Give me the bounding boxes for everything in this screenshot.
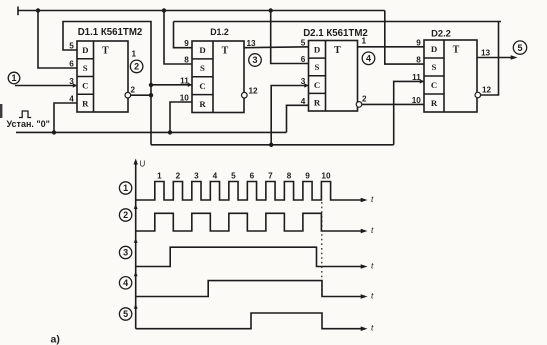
svg-text:D: D — [82, 45, 88, 55]
svg-text:8: 8 — [416, 56, 421, 65]
wire: reset up to R pin 4 of D1.1 — [54, 103, 77, 132]
svg-text:9: 9 — [416, 38, 421, 47]
pin 10 label of D2.2 — [412, 96, 422, 105]
timing row 2 waveform — [136, 213, 364, 231]
wire: B right leg down to pin 12 of D2.2 — [498, 22, 500, 96]
svg-text:C: C — [314, 80, 320, 90]
pin 9 label of D1.2 — [184, 39, 189, 48]
clock arrowhead at C of D2.2 — [420, 79, 424, 83]
svg-text:1: 1 — [11, 73, 16, 83]
pin 13 label of D2.2 — [481, 49, 491, 58]
svg-text:7: 7 — [268, 172, 273, 181]
svg-text:1: 1 — [123, 183, 128, 193]
wire: /Q D1.1 to C pin 11 of D1.2 — [151, 84, 192, 86]
inversion bubble pin 12 D2.2 — [475, 92, 481, 98]
timing row 5 t label — [371, 323, 374, 333]
svg-text:S: S — [83, 63, 88, 73]
svg-text:C: C — [82, 81, 88, 91]
svg-text:3: 3 — [252, 55, 257, 65]
pin 8 label of D2.2 — [416, 56, 421, 65]
dashed timing marker line — [321, 202, 323, 295]
svg-text:6: 6 — [69, 60, 74, 69]
label D1.2 — [210, 27, 229, 37]
svg-text:4: 4 — [69, 95, 74, 104]
wire: input to C pin 3 of D1.1 — [15, 85, 77, 87]
timing row 4 waveform — [136, 281, 364, 297]
pin 1 label of D1.1 — [132, 50, 137, 59]
svg-text:S: S — [200, 63, 205, 73]
svg-text:Устан. "0": Устан. "0" — [7, 119, 50, 129]
wire: pin12 D2.2 to B leg — [480, 94, 499, 96]
svg-text:3: 3 — [194, 172, 199, 181]
pulse symbol at reset input — [19, 111, 31, 118]
label D2.1 K561TM2 — [303, 28, 368, 39]
svg-text:12: 12 — [482, 86, 492, 95]
svg-text:S: S — [432, 62, 437, 72]
svg-text:5: 5 — [301, 38, 306, 47]
wire: drop to S pin 6 of D2.1 — [271, 11, 309, 64]
inversion bubble pin 2 D2.1 — [356, 102, 362, 108]
svg-text:2: 2 — [123, 210, 128, 220]
timing row 4 t label — [371, 291, 374, 301]
pulse number 1 — [157, 172, 162, 181]
flip-flop D2.1 K561TM2 box — [309, 41, 358, 112]
pulse number 8 — [287, 172, 292, 181]
pin 6 label of D1.1 — [69, 60, 74, 69]
svg-text:3: 3 — [69, 77, 74, 86]
svg-text:D2.2: D2.2 — [431, 28, 451, 39]
svg-text:D: D — [199, 45, 205, 55]
wire: bus A corner drop to S pin 8 of D2.2 — [385, 11, 424, 65]
pin 6 label of D2.1 — [301, 55, 306, 64]
svg-text:R: R — [199, 99, 206, 109]
junction dot reset at x170 — [168, 130, 172, 134]
pin 1 label of D2.1 — [362, 37, 367, 46]
svg-text:10: 10 — [321, 172, 331, 181]
timing row 5 mini U arrowhead — [134, 304, 138, 309]
junction dot at (151,85) — [149, 83, 153, 87]
wire: reset bus Ustan.0 — [16, 131, 287, 133]
svg-text:9: 9 — [305, 172, 310, 181]
label U — [140, 160, 146, 169]
pulse number 3 — [194, 172, 199, 181]
pin 4 label of D2.1 — [301, 97, 306, 106]
node 5: output tag of D2.2 — [513, 41, 526, 54]
wire: top feedback bus A — [18, 7, 385, 16]
timing row 2 signal tag circle — [119, 209, 131, 221]
svg-text:3: 3 — [123, 248, 128, 258]
wire: bus2 up to C pin 3 of D2.1 — [271, 86, 308, 145]
inversion bubble pin 12 D1.2 — [242, 92, 248, 98]
svg-text:D1.1 К561ТМ2: D1.1 К561ТМ2 — [78, 27, 143, 38]
svg-text:D: D — [431, 44, 437, 54]
pulse number 7 — [268, 172, 273, 181]
svg-text:а): а) — [51, 334, 60, 345]
timing row 1 t-axis arrowhead — [361, 198, 368, 203]
pin 10 label of D1.2 — [180, 94, 190, 103]
wire: pin 2 bubble of D1.1 to junction — [131, 94, 152, 96]
svg-text:S: S — [315, 62, 320, 72]
pulse number 6 — [250, 172, 255, 181]
svg-text:T: T — [102, 46, 109, 57]
scan artifact bar at left edge — [0, 104, 2, 118]
label D1.1 K561TM2 — [78, 27, 143, 38]
svg-text:5: 5 — [517, 43, 522, 53]
svg-text:8: 8 — [184, 56, 189, 65]
pin 2 label of D1.1 — [131, 86, 136, 95]
svg-text:6: 6 — [301, 55, 306, 64]
wire: D1.1 feedback loop (pin5 D to /Q) — [63, 22, 151, 145]
clock arrowhead at C of D1.1 — [73, 83, 77, 87]
timing row 1 signal tag circle — [119, 182, 131, 194]
junction dot at (151,95) — [149, 93, 153, 97]
svg-text:2: 2 — [362, 95, 367, 104]
node 4: output tag of D2.1 — [362, 52, 375, 65]
pin 11 label of D2.2 — [412, 73, 421, 82]
pin 2 label of D2.1 — [362, 95, 367, 104]
pin 3 label of D1.1 — [69, 77, 74, 86]
junction dot on bus2 at x271 — [269, 143, 273, 147]
svg-text:13: 13 — [247, 39, 257, 48]
svg-text:10: 10 — [412, 96, 422, 105]
svg-text:1: 1 — [362, 37, 367, 46]
pin 4 label of D1.1 — [69, 95, 74, 104]
svg-text:11: 11 — [412, 73, 421, 82]
junction dot on bus A at x38 — [36, 8, 40, 12]
timing row 3 signal tag circle — [119, 246, 131, 258]
pulse number 5 — [231, 172, 236, 181]
pin 12 label of D2.2 — [482, 86, 492, 95]
clock arrowhead at C of D2.1 — [304, 83, 308, 87]
pin 12 label of D1.2 — [249, 87, 259, 96]
svg-text:10: 10 — [180, 94, 190, 103]
clock arrowhead at C of D1.2 — [188, 83, 192, 87]
junction dot on bus A at x164 — [162, 8, 166, 12]
svg-text:U: U — [140, 160, 146, 169]
timing row 4 mini U arrowhead — [134, 271, 138, 276]
node 3: output tag of D1.2 — [249, 54, 262, 67]
svg-text:T: T — [222, 46, 229, 57]
svg-text:D: D — [314, 45, 320, 55]
svg-text:5: 5 — [69, 42, 74, 51]
svg-text:4: 4 — [123, 278, 128, 288]
svg-text:T: T — [334, 45, 341, 56]
svg-text:T: T — [453, 45, 460, 56]
wire: bus2 up to C pin 11 of D2.2 — [394, 81, 424, 144]
wire: feedback line B (/Q D2.2 run) — [174, 21, 502, 23]
svg-text:12: 12 — [249, 87, 259, 96]
flip-flop D1.1 K561TM2 box — [77, 41, 128, 112]
svg-text:6: 6 — [250, 172, 255, 181]
inversion bubble pin 2 D1.1 — [125, 92, 131, 98]
svg-text:2: 2 — [134, 62, 139, 72]
svg-text:R: R — [82, 98, 89, 108]
timing row 2 t label — [371, 225, 374, 235]
junction dot on bus A at x270 — [269, 8, 273, 12]
timing U axis vertical — [135, 161, 137, 329]
wire: B left leg down to D pin 9 of D1.2 — [174, 22, 193, 48]
svg-text:4: 4 — [301, 97, 306, 106]
pin 5 label of D2.1 — [301, 38, 306, 47]
timing row 5 waveform — [136, 313, 364, 329]
svg-text:R: R — [314, 97, 321, 107]
wire: drop to S pin 8 of D1.2 — [164, 11, 192, 65]
timing row 4 signal tag circle — [119, 277, 131, 289]
pulse number 2 — [176, 172, 181, 181]
svg-text:5: 5 — [123, 309, 128, 319]
junction dot reset at x54 — [52, 130, 56, 134]
flip-flop D1.2 K561TM2 box — [192, 41, 244, 113]
pin 13 label of D1.2 — [247, 39, 257, 48]
timing row 2 t-axis arrowhead — [361, 229, 368, 234]
timing row 5 t-axis arrowhead — [361, 326, 368, 331]
timing row 4 t-axis arrowhead — [361, 294, 368, 299]
flip-flop D2.2 K561TM2 box — [424, 40, 477, 112]
svg-text:D2.1 К561ТМ2: D2.1 К561ТМ2 — [303, 28, 368, 39]
timing U axis arrowhead — [134, 159, 138, 165]
timing row 3 mini U arrowhead — [134, 238, 138, 243]
svg-text:13: 13 — [481, 49, 491, 58]
pulse number 4 — [213, 172, 218, 181]
svg-text:R: R — [431, 98, 438, 108]
svg-text:C: C — [199, 81, 205, 91]
wire: drop to S pin 6 of D1.1 — [38, 11, 77, 69]
svg-text:D1.2: D1.2 — [210, 27, 229, 37]
timing row 1 waveform — [136, 182, 364, 201]
pin 8 label of D1.2 — [184, 56, 189, 65]
timing row 5 signal tag circle — [119, 308, 131, 320]
svg-text:1: 1 — [157, 172, 162, 181]
svg-text:9: 9 — [184, 39, 189, 48]
wire: /Q pin 2 of D2.1 to R pin 10 of D2.2 — [362, 103, 424, 105]
timing row 3 waveform — [136, 247, 364, 266]
timing row 1 t label — [371, 194, 374, 204]
pulse number 10 — [321, 172, 331, 181]
pin 11 label of D1.2 — [180, 76, 189, 85]
svg-text:5: 5 — [231, 172, 236, 181]
pin 9 label of D2.2 — [416, 38, 421, 47]
timing row 3 t-axis arrowhead — [361, 264, 368, 269]
svg-text:C: C — [431, 80, 437, 90]
svg-text:4: 4 — [213, 172, 218, 181]
node 1: input terminal circle — [8, 72, 20, 84]
svg-text:4: 4 — [366, 54, 371, 64]
wire: Q pin 13 of D2.2 output with arrow — [477, 55, 518, 60]
pin 5 label of D1.1 — [69, 42, 74, 51]
node 2: output tag of D1.1 — [130, 60, 143, 73]
svg-text:11: 11 — [180, 76, 189, 85]
svg-text:3: 3 — [301, 77, 306, 86]
wire: reset up to R pin 10 of D1.2 — [170, 102, 192, 132]
wire: Q pin 13 of D1.2 to D pin 5 of D2.1 — [244, 46, 309, 49]
label D2.2 — [431, 28, 451, 39]
timing row 2 mini U arrowhead — [134, 204, 138, 209]
label Ustan 0 — [7, 119, 50, 129]
pulse number 9 — [305, 172, 310, 181]
wire: Q pin 1 of D2.1 to D pin 9 of D2.2 — [358, 46, 425, 48]
label a) — [51, 334, 60, 345]
svg-text:2: 2 — [176, 172, 181, 181]
timing row 3 t label — [371, 261, 374, 271]
svg-text:2: 2 — [131, 86, 136, 95]
svg-text:1: 1 — [132, 50, 137, 59]
wire: reset up to R pin 4 of D2.1 — [287, 105, 309, 132]
svg-text:8: 8 — [287, 172, 292, 181]
pin 3 label of D2.1 — [301, 77, 306, 86]
wire: clock bus2 along bottom — [151, 144, 394, 146]
